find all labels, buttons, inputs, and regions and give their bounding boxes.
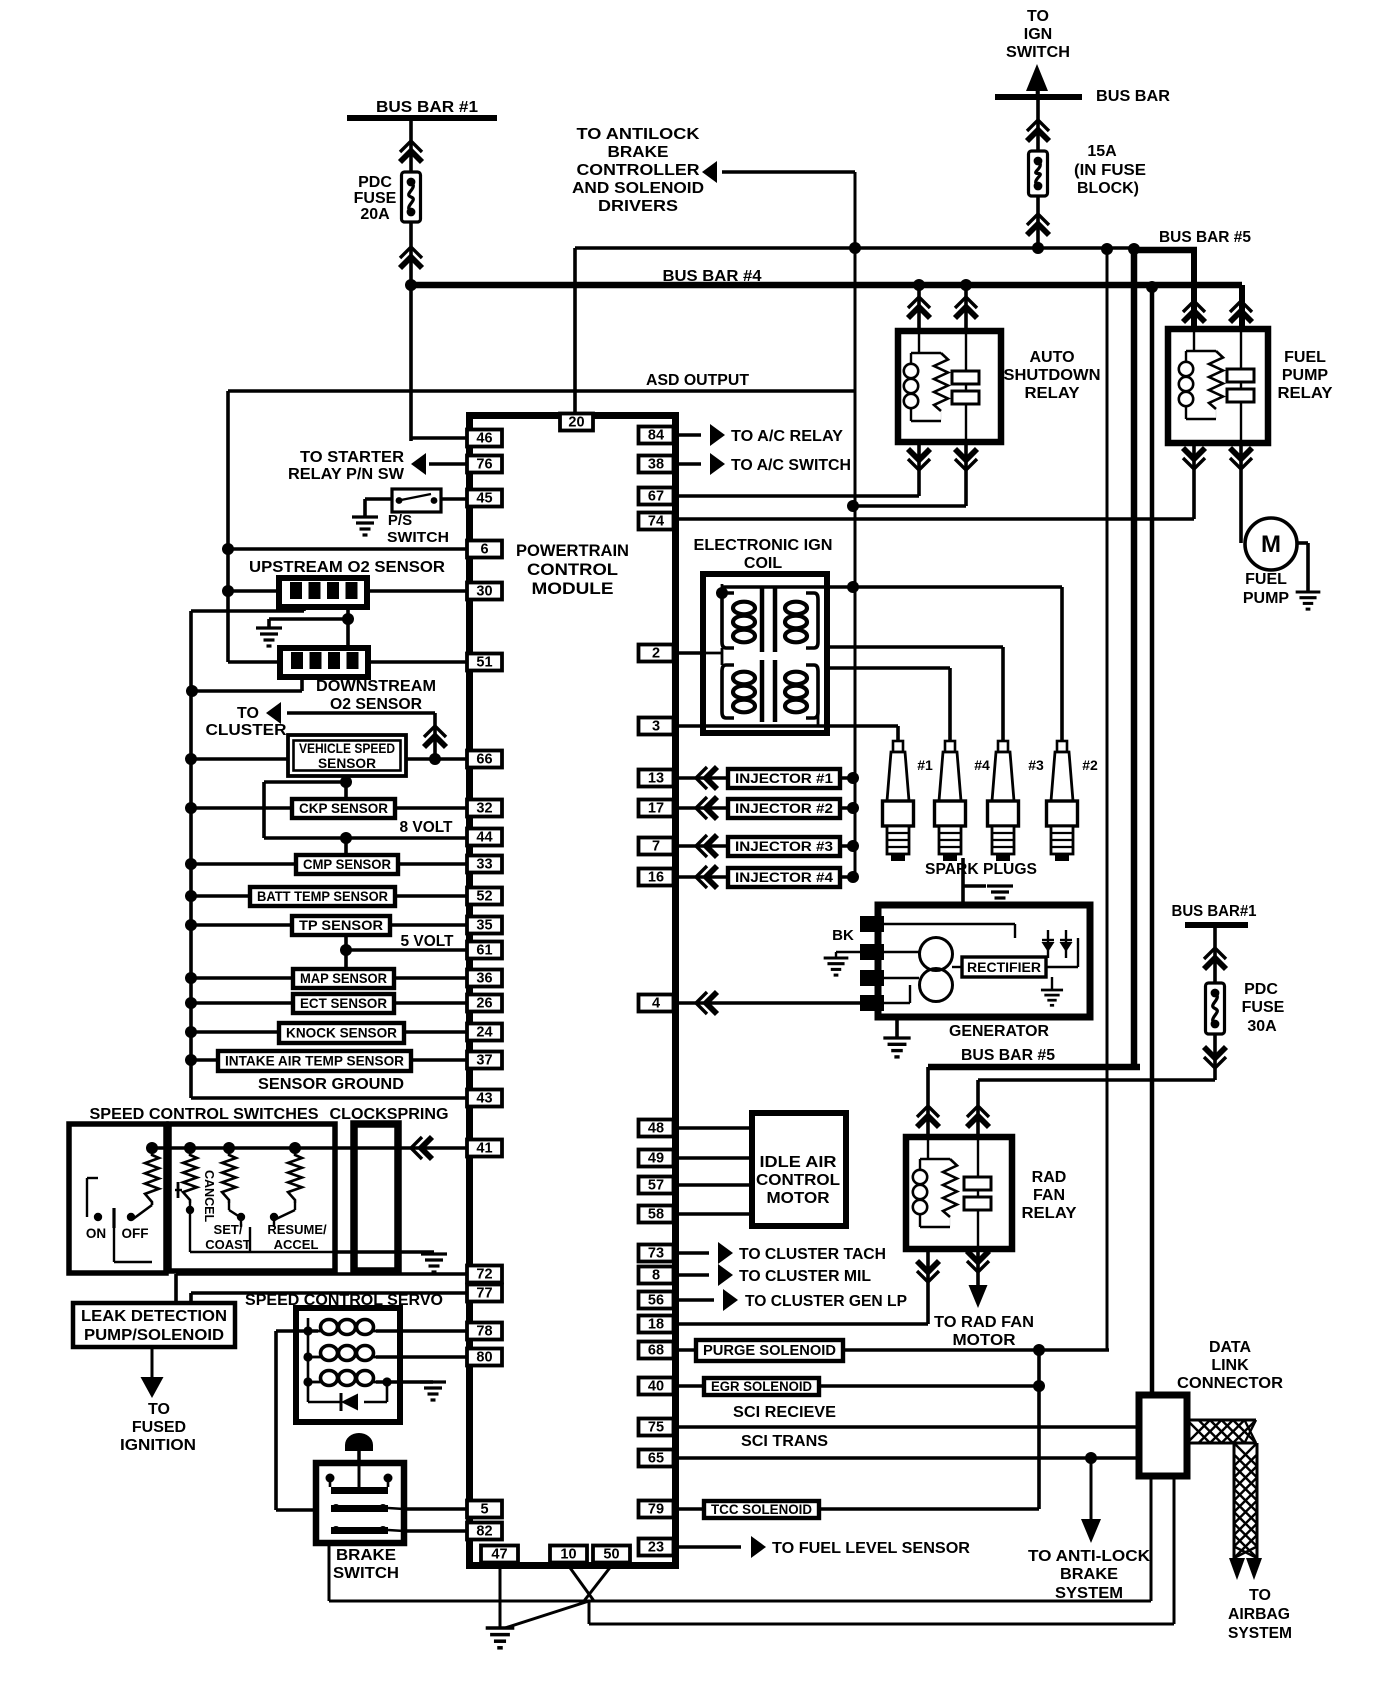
svg-text:10: 10 [560, 1547, 576, 1563]
svg-text:RELAY P/N SW: RELAY P/N SW [288, 466, 405, 483]
svg-text:TO ANTI-LOCK: TO ANTI-LOCK [1028, 1548, 1150, 1565]
svg-text:O2 SENSOR: O2 SENSOR [330, 696, 422, 713]
svg-text:EGR SOLENOID: EGR SOLENOID [711, 1379, 812, 1394]
svg-text:M: M [1261, 531, 1281, 558]
svg-text:36: 36 [476, 971, 492, 987]
svg-text:TCC SOLENOID: TCC SOLENOID [711, 1502, 812, 1517]
svg-text:4: 4 [652, 996, 660, 1012]
svg-text:49: 49 [648, 1151, 664, 1167]
svg-text:77: 77 [476, 1286, 492, 1302]
svg-text:MAP SENSOR: MAP SENSOR [300, 970, 387, 986]
svg-text:5 VOLT: 5 VOLT [401, 933, 454, 950]
svg-text:FUSE: FUSE [354, 190, 397, 207]
svg-text:SET/: SET/ [214, 1222, 243, 1237]
svg-text:TO: TO [237, 705, 259, 722]
svg-text:TP SENSOR: TP SENSOR [299, 917, 383, 933]
svg-text:SENSOR: SENSOR [318, 755, 376, 771]
svg-text:SWITCH: SWITCH [333, 1565, 399, 1582]
svg-text:44: 44 [476, 830, 492, 846]
svg-text:FUEL: FUEL [1284, 349, 1326, 366]
svg-text:56: 56 [648, 1293, 664, 1309]
svg-text:CONTROL: CONTROL [527, 560, 618, 579]
svg-text:LEAK DETECTION: LEAK DETECTION [81, 1308, 227, 1325]
svg-text:66: 66 [476, 752, 492, 768]
svg-text:20: 20 [568, 415, 584, 431]
svg-text:RELAY: RELAY [1025, 385, 1080, 402]
svg-text:UPSTREAM O2 SENSOR: UPSTREAM O2 SENSOR [249, 559, 445, 576]
svg-text:65: 65 [648, 1451, 664, 1467]
svg-text:TO A/C RELAY: TO A/C RELAY [731, 428, 843, 445]
svg-text:ASD OUTPUT: ASD OUTPUT [646, 372, 749, 389]
svg-text:46: 46 [476, 431, 492, 447]
svg-text:AUTO: AUTO [1029, 349, 1074, 366]
svg-text:MODULE: MODULE [532, 579, 614, 598]
svg-text:52: 52 [476, 889, 492, 905]
svg-text:26: 26 [476, 996, 492, 1012]
svg-text:PDC: PDC [1244, 981, 1278, 998]
svg-text:CKP SENSOR: CKP SENSOR [299, 800, 388, 816]
svg-text:76: 76 [476, 457, 492, 473]
svg-text:FUSE: FUSE [1242, 999, 1285, 1016]
svg-text:SCI TRANS: SCI TRANS [741, 1433, 828, 1450]
svg-text:RESUME/: RESUME/ [267, 1222, 327, 1237]
svg-text:SPARK PLUGS: SPARK PLUGS [925, 861, 1037, 878]
svg-text:67: 67 [648, 489, 664, 505]
svg-text:8 VOLT: 8 VOLT [400, 819, 453, 836]
svg-text:15A: 15A [1087, 143, 1117, 160]
svg-text:SWITCH: SWITCH [1006, 44, 1070, 61]
svg-text:SCI RECIEVE: SCI RECIEVE [733, 1404, 836, 1421]
svg-text:SPEED CONTROL SWITCHES: SPEED CONTROL SWITCHES [90, 1106, 319, 1123]
svg-text:TO RAD FAN: TO RAD FAN [934, 1314, 1034, 1331]
svg-text:TO CLUSTER TACH: TO CLUSTER TACH [739, 1246, 886, 1263]
svg-text:CONTROL: CONTROL [756, 1172, 840, 1189]
svg-text:CLOCKSPRING: CLOCKSPRING [330, 1106, 449, 1123]
svg-text:CONTROLLER: CONTROLLER [577, 162, 700, 179]
svg-text:84: 84 [648, 428, 664, 444]
svg-text:TO ANTILOCK: TO ANTILOCK [577, 126, 701, 143]
svg-text:IGN: IGN [1024, 26, 1052, 43]
svg-text:17: 17 [648, 801, 664, 817]
svg-text:35: 35 [476, 918, 492, 934]
svg-text:ACCEL: ACCEL [274, 1237, 319, 1252]
svg-text:BRAKE: BRAKE [608, 144, 669, 161]
svg-text:BRAKE: BRAKE [336, 1547, 396, 1564]
svg-text:RELAY: RELAY [1278, 385, 1333, 402]
svg-text:LINK: LINK [1211, 1357, 1249, 1374]
svg-text:TO STARTER: TO STARTER [300, 449, 404, 466]
svg-text:20A: 20A [360, 206, 390, 223]
svg-text:DRIVERS: DRIVERS [598, 198, 678, 215]
svg-text:40: 40 [648, 1379, 664, 1395]
svg-text:80: 80 [476, 1350, 492, 1366]
svg-text:57: 57 [648, 1178, 664, 1194]
svg-text:FUEL: FUEL [1245, 571, 1287, 588]
svg-text:BATT TEMP SENSOR: BATT TEMP SENSOR [257, 888, 388, 904]
svg-text:51: 51 [476, 655, 492, 671]
svg-text:SHUTDOWN: SHUTDOWN [1004, 367, 1101, 384]
svg-text:6: 6 [480, 542, 488, 558]
svg-text:PDC: PDC [358, 174, 392, 191]
svg-text:PURGE SOLENOID: PURGE SOLENOID [703, 1343, 836, 1359]
svg-text:#3: #3 [1028, 757, 1044, 773]
svg-text:AND SOLENOID: AND SOLENOID [572, 180, 704, 197]
svg-text:79: 79 [648, 1502, 664, 1518]
svg-text:BRAKE: BRAKE [1060, 1566, 1118, 1583]
svg-text:(IN FUSE: (IN FUSE [1074, 162, 1146, 179]
svg-text:RAD: RAD [1032, 1169, 1067, 1186]
svg-text:INJECTOR #2: INJECTOR #2 [735, 801, 833, 816]
svg-text:32: 32 [476, 801, 492, 817]
svg-text:SENSOR GROUND: SENSOR GROUND [258, 1076, 404, 1093]
svg-text:TO: TO [1249, 1587, 1271, 1604]
svg-text:BUS BAR#1: BUS BAR#1 [1172, 903, 1257, 920]
svg-text:30A: 30A [1247, 1018, 1277, 1035]
svg-text:2: 2 [652, 646, 660, 662]
svg-text:ECT SENSOR: ECT SENSOR [300, 995, 387, 1011]
svg-text:CMP SENSOR: CMP SENSOR [303, 856, 391, 872]
svg-text:48: 48 [648, 1121, 664, 1137]
svg-text:BLOCK): BLOCK) [1077, 180, 1139, 197]
svg-text:ON: ON [86, 1226, 106, 1241]
svg-text:OFF: OFF [122, 1226, 149, 1241]
svg-text:#2: #2 [1082, 757, 1098, 773]
svg-text:GENERATOR: GENERATOR [949, 1023, 1049, 1040]
svg-text:BUS BAR #5: BUS BAR #5 [961, 1047, 1055, 1064]
svg-text:DOWNSTREAM: DOWNSTREAM [316, 678, 436, 695]
svg-text:POWERTRAIN: POWERTRAIN [516, 541, 629, 560]
svg-text:5: 5 [480, 1502, 488, 1518]
svg-text:IDLE AIR: IDLE AIR [760, 1154, 837, 1171]
svg-text:58: 58 [648, 1207, 664, 1223]
svg-text:RECTIFIER: RECTIFIER [967, 960, 1041, 975]
svg-text:INJECTOR #4: INJECTOR #4 [735, 870, 834, 885]
svg-text:TO CLUSTER GEN LP: TO CLUSTER GEN LP [745, 1293, 907, 1310]
svg-text:23: 23 [648, 1540, 664, 1556]
svg-text:7: 7 [652, 839, 660, 855]
svg-text:24: 24 [476, 1025, 492, 1041]
svg-text:MOTOR: MOTOR [767, 1190, 830, 1207]
svg-text:BUS BAR #5: BUS BAR #5 [1159, 229, 1251, 246]
svg-text:13: 13 [648, 771, 664, 787]
svg-text:CLUSTER: CLUSTER [206, 722, 287, 739]
svg-text:72: 72 [476, 1267, 492, 1283]
svg-text:TO FUEL LEVEL SENSOR: TO FUEL LEVEL SENSOR [772, 1540, 970, 1557]
svg-text:SPEED CONTROL SERVO: SPEED CONTROL SERVO [245, 1292, 443, 1309]
svg-text:18: 18 [648, 1317, 664, 1333]
svg-text:73: 73 [648, 1246, 664, 1262]
svg-text:33: 33 [476, 857, 492, 873]
svg-text:IGNITION: IGNITION [120, 1437, 196, 1454]
svg-text:TO: TO [148, 1401, 170, 1418]
svg-text:82: 82 [476, 1524, 492, 1540]
svg-text:30: 30 [476, 584, 492, 600]
svg-text:50: 50 [603, 1547, 619, 1563]
svg-text:PUMP: PUMP [1282, 367, 1329, 384]
svg-text:#1: #1 [917, 757, 933, 773]
svg-text:BUS BAR #4: BUS BAR #4 [663, 268, 762, 285]
svg-text:FUSED: FUSED [132, 1419, 186, 1436]
svg-text:BUS BAR: BUS BAR [1096, 88, 1170, 105]
svg-text:3: 3 [652, 719, 660, 735]
svg-text:RELAY: RELAY [1022, 1205, 1077, 1222]
svg-text:FAN: FAN [1033, 1187, 1065, 1204]
svg-text:MOTOR: MOTOR [953, 1332, 1016, 1349]
svg-text:DATA: DATA [1209, 1339, 1252, 1356]
svg-text:41: 41 [476, 1141, 492, 1157]
svg-text:TO CLUSTER MIL: TO CLUSTER MIL [739, 1268, 871, 1285]
svg-text:PUMP/SOLENOID: PUMP/SOLENOID [84, 1327, 224, 1344]
svg-text:INJECTOR #1: INJECTOR #1 [735, 771, 834, 786]
svg-text:75: 75 [648, 1420, 664, 1436]
svg-text:8: 8 [652, 1268, 660, 1284]
svg-text:INTAKE AIR TEMP SENSOR: INTAKE AIR TEMP SENSOR [225, 1052, 404, 1068]
svg-text:68: 68 [648, 1343, 664, 1359]
svg-text:AIRBAG: AIRBAG [1228, 1606, 1290, 1623]
svg-text:37: 37 [476, 1053, 492, 1069]
svg-text:ELECTRONIC IGN: ELECTRONIC IGN [694, 537, 833, 554]
svg-text:TO A/C SWITCH: TO A/C SWITCH [731, 457, 851, 474]
svg-text:VEHICLE SPEED: VEHICLE SPEED [299, 740, 395, 756]
svg-text:SWITCH: SWITCH [387, 529, 449, 546]
svg-text:PUMP: PUMP [1243, 590, 1290, 607]
svg-text:16: 16 [648, 870, 664, 886]
svg-text:BK: BK [832, 927, 854, 944]
svg-text:43: 43 [476, 1091, 492, 1107]
svg-text:61: 61 [476, 943, 492, 959]
svg-text:TO: TO [1027, 8, 1049, 25]
svg-text:45: 45 [476, 491, 492, 507]
svg-text:COIL: COIL [744, 555, 782, 572]
svg-text:CANCEL: CANCEL [202, 1170, 216, 1222]
svg-text:BUS BAR #1: BUS BAR #1 [376, 99, 478, 116]
svg-text:P/S: P/S [388, 512, 412, 529]
svg-text:KNOCK SENSOR: KNOCK SENSOR [286, 1024, 397, 1040]
svg-text:SYSTEM: SYSTEM [1228, 1625, 1292, 1642]
svg-text:COAST: COAST [205, 1237, 251, 1252]
svg-text:38: 38 [648, 457, 664, 473]
svg-text:SYSTEM: SYSTEM [1055, 1585, 1123, 1602]
svg-text:INJECTOR #3: INJECTOR #3 [735, 839, 834, 854]
svg-text:#4: #4 [974, 757, 990, 773]
svg-text:78: 78 [476, 1324, 492, 1340]
svg-text:74: 74 [648, 514, 664, 530]
svg-text:47: 47 [491, 1547, 507, 1563]
svg-text:CONNECTOR: CONNECTOR [1177, 1375, 1283, 1392]
